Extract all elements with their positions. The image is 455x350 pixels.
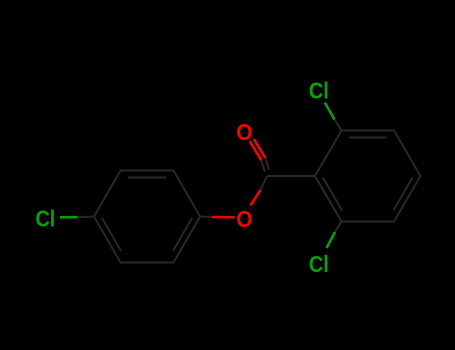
double bond C=O line 1 (carbon half): [261, 160, 265, 172]
svg-text:Cl: Cl: [36, 206, 56, 232]
ring1 inner double bond left-bottom: [102, 218, 121, 251]
bond Cl3 to ring2 (carbon half): [335, 222, 342, 233]
bond ester O to carbonyl C (red half): [251, 190, 261, 206]
bond ester O to carbonyl C (carbon half): [260, 176, 267, 190]
bond ring1 to ester O (carbon half): [200, 216, 212, 219]
double bond C=O line 2 (red half): [254, 139, 266, 158]
ring1 inner double bond right-bottom: [173, 218, 192, 251]
ring1 benzene hexagon outline: [94, 171, 200, 263]
ring2 inner double bond top: [349, 137, 387, 139]
benzene ring right (2,6-dichlorophenyl): [315, 131, 421, 222]
double bond C=O line 1 (red half): [250, 141, 262, 160]
bond Cl1 to ring1 (green half): [60, 216, 78, 219]
benzene ring left (4-chlorophenyl): [94, 171, 200, 263]
svg-text:Cl: Cl: [309, 251, 329, 277]
bond carbonyl C to ring2: [267, 175, 315, 177]
bond ring1 to ester O (red half): [212, 216, 235, 219]
ring2 inner double bond left-bottom: [323, 178, 342, 211]
svg-text:Cl: Cl: [309, 78, 329, 104]
ring2 benzene hexagon outline: [315, 131, 421, 222]
ring1 inner double bond top: [128, 177, 166, 179]
bond Cl2 to ring2 (green half): [325, 103, 335, 120]
double bond C=O line 2 (carbon half): [265, 158, 269, 170]
bond Cl3 to ring2 (green half): [327, 232, 336, 248]
bond Cl2 to ring2 (carbon half): [335, 120, 342, 131]
svg-text:O: O: [236, 206, 252, 232]
bond Cl1 to ring1 (carbon half): [78, 216, 95, 219]
ring2 inner double bond right-bottom: [394, 178, 413, 211]
